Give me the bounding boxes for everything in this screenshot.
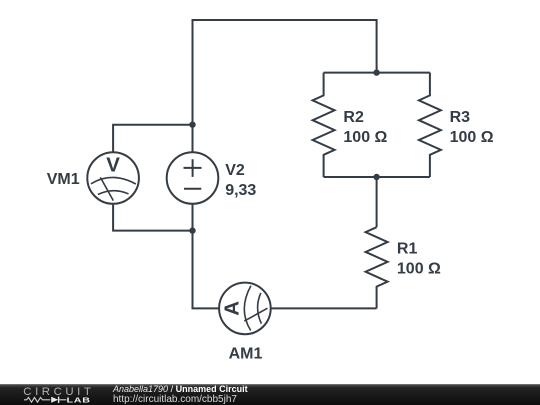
svg-text:100 Ω: 100 Ω [450, 129, 494, 146]
logo diode [51, 396, 58, 402]
wire node to R1 [376, 177, 378, 227]
wire V2 bottom lead [192, 204, 194, 231]
voltage source V2 body [167, 152, 219, 204]
V2 plus sign [184, 159, 202, 177]
AM1 gauge (arcs + needle, rotated) [244, 286, 267, 331]
VM1 gauge (arcs + needle) [91, 177, 136, 200]
node junction top left [189, 122, 195, 128]
resistor R3 [419, 73, 441, 177]
svg-text:9,33: 9,33 [225, 182, 256, 199]
V2 minus sign [184, 188, 201, 190]
svg-text:V: V [106, 154, 120, 177]
node junction top right [373, 69, 379, 75]
svg-text:100 Ω: 100 Ω [343, 129, 387, 146]
wire VM1 bottom branch [113, 204, 192, 231]
svg-text:100 Ω: 100 Ω [397, 261, 441, 278]
wire V2 top lead [192, 125, 194, 153]
wire top loop [193, 20, 377, 125]
svg-text:A: A [221, 301, 244, 316]
svg-text:R1: R1 [397, 241, 418, 258]
ammeter AM1 body [219, 283, 271, 335]
voltmeter VM1 body [87, 152, 139, 204]
svg-text:R3: R3 [450, 109, 471, 126]
wire rail bottom (R2/R3 parallel) [324, 176, 430, 178]
svg-text:LAB: LAB [67, 396, 91, 404]
wire bottom left [193, 231, 220, 309]
footer bar [0, 384, 540, 405]
node junction bottom left [189, 227, 195, 233]
svg-text:R2: R2 [343, 109, 364, 126]
svg-text:VM1: VM1 [47, 171, 80, 188]
svg-text:AM1: AM1 [229, 346, 263, 363]
wire VM1 top branch [113, 125, 192, 153]
CircuitLab logo [22, 384, 122, 405]
wire bottom right [271, 307, 377, 309]
svg-text:V2: V2 [225, 162, 245, 179]
resistor R1 [366, 227, 388, 308]
logo resistor trace [24, 397, 50, 402]
node junction mid right [373, 174, 379, 180]
wire rail top (R2/R3 parallel) [324, 72, 430, 74]
resistor R2 [313, 73, 335, 177]
